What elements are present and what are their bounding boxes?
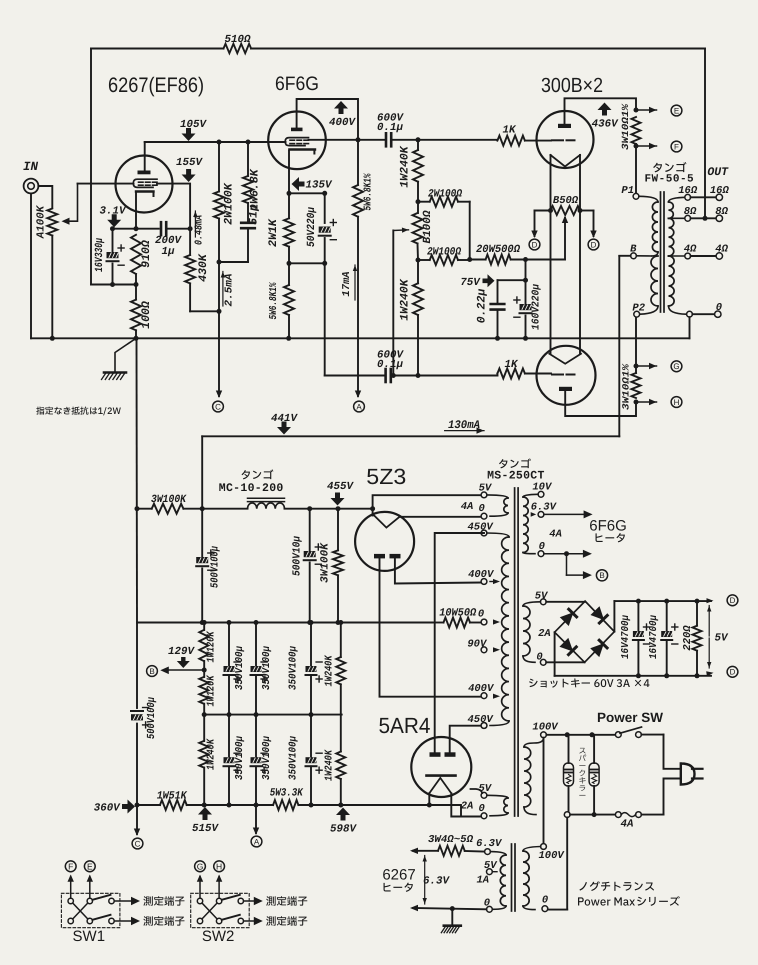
pot B50ohm — [551, 206, 581, 215]
svg-text:90V: 90V — [467, 638, 488, 650]
svg-text:3W4Ω~5Ω: 3W4Ω~5Ω — [428, 834, 474, 846]
bridge rectifier — [546, 601, 585, 603]
resistor 910ohm — [131, 235, 141, 274]
switch SW2 — [191, 893, 250, 927]
svg-text:3W100K: 3W100K — [320, 542, 332, 583]
terminal A bottom — [255, 805, 257, 833]
noguchi left winding — [485, 849, 491, 855]
svg-text:B: B — [599, 571, 604, 580]
resistor 1W240K col6 a — [340, 623, 342, 658]
wire B+ drop to filter — [201, 436, 203, 508]
svg-text:H: H — [216, 861, 222, 871]
terminal A top — [357, 338, 359, 396]
transformer T3 noguchi core — [511, 844, 513, 911]
svg-text:455V: 455V — [327, 481, 354, 493]
terminal D plus — [727, 595, 738, 606]
wire plate node — [145, 141, 286, 143]
svg-text:5V: 5V — [478, 783, 492, 795]
svg-text:1µ: 1µ — [162, 246, 175, 258]
wire 6F6G screen to plate node — [309, 139, 359, 141]
noguchi right winding — [523, 847, 541, 852]
wire 50V220u to lower coupling — [324, 263, 326, 375]
wire bridge minus — [554, 632, 556, 676]
MS left winding 5V top — [481, 492, 487, 498]
capacitor 160V220u — [525, 280, 527, 304]
capacitor 16V4700u b — [666, 601, 668, 631]
resistor 1W120K b — [199, 677, 208, 704]
wire B+ 441V rail — [202, 435, 619, 437]
wire 5AR4 to 5V tap — [471, 789, 483, 793]
capacitor 350V100u c5a — [310, 623, 312, 667]
spark killer 2 — [593, 735, 595, 763]
choke MC-10-200 — [242, 469, 274, 479]
svg-text:0: 0 — [478, 803, 484, 815]
svg-text:16Ω: 16Ω — [710, 185, 730, 197]
label 400V plate — [334, 101, 348, 114]
label 436V — [598, 103, 612, 116]
svg-text:5V: 5V — [479, 483, 493, 495]
tube V4 300B lower — [537, 346, 596, 405]
svg-text:A100K: A100K — [36, 204, 48, 239]
svg-text:3W10Ω1%: 3W10Ω1% — [621, 363, 632, 410]
svg-text:F: F — [674, 142, 679, 151]
svg-text:598V: 598V — [330, 824, 357, 836]
svg-text:3W10Ω1%: 3W10Ω1% — [620, 103, 631, 150]
wire 6F6G plate — [297, 99, 358, 140]
svg-text:5Z3: 5Z3 — [366, 464, 406, 489]
wire 6F6G cathode drop — [288, 151, 290, 194]
svg-text:1W240K: 1W240K — [399, 278, 412, 321]
wire coupling node to cap — [358, 139, 384, 141]
svg-text:450V: 450V — [467, 522, 494, 534]
wire join 51p/2W100K — [219, 261, 248, 263]
terminal B heater — [596, 570, 607, 581]
resistor 430K — [189, 229, 191, 255]
svg-text:0: 0 — [539, 541, 545, 553]
wire cathode node — [135, 192, 137, 229]
300B grid dashes — [552, 139, 563, 141]
resistor 1W240K col2 — [203, 715, 205, 741]
terminal E — [89, 877, 91, 899]
EF86 cathode — [136, 190, 154, 192]
MS 90V tap — [481, 647, 487, 653]
svg-text:400V: 400V — [329, 117, 356, 129]
wire 5AR4 left plate to 450V top — [435, 533, 484, 752]
wire 5V DC plus rail — [614, 600, 711, 602]
terminal C bottom — [136, 805, 138, 834]
svg-text:5AR4: 5AR4 — [379, 713, 431, 738]
wire 5AR4 cathode to bottom rail — [428, 793, 430, 805]
svg-text:16V330µ: 16V330µ — [94, 238, 106, 272]
svg-text:1W240K: 1W240K — [206, 738, 218, 770]
svg-text:A: A — [356, 402, 362, 411]
label spark killer — [579, 748, 585, 754]
svg-text:Power SW: Power SW — [597, 710, 663, 725]
capacitor 51p — [247, 203, 249, 221]
ground symbol main — [115, 338, 136, 372]
svg-text:4Ω: 4Ω — [715, 244, 728, 256]
svg-text:4A: 4A — [621, 819, 634, 831]
svg-text:C: C — [135, 839, 141, 848]
svg-text:400V: 400V — [468, 683, 495, 695]
svg-text:6F6G: 6F6G — [275, 73, 319, 95]
svg-text:4Ω: 4Ω — [684, 244, 697, 256]
transformer T2 MS-250CT label — [499, 458, 531, 468]
svg-text:16V4700µ: 16V4700µ — [648, 614, 660, 659]
hum pot B100ohm — [413, 213, 423, 244]
svg-text:436V: 436V — [592, 119, 619, 131]
SW2 measure wires — [244, 900, 254, 902]
wire 5Z3 left plate to 400V — [380, 558, 482, 696]
capacitor 16V4700u a — [637, 601, 639, 631]
capacitor 350V100u c3b — [228, 715, 230, 758]
svg-text:2W100Ω: 2W100Ω — [428, 189, 462, 201]
capacitor 500V10u — [309, 509, 311, 551]
resistor 3W100K second — [337, 509, 339, 551]
wire feedback top — [91, 48, 224, 50]
wire bridge AC bottom — [546, 661, 584, 663]
svg-text:1W240K: 1W240K — [324, 749, 336, 781]
resistor 1W51K — [160, 800, 187, 810]
resistor 5W3.3K — [273, 800, 298, 810]
terminal C top — [218, 338, 220, 396]
svg-text:129V: 129V — [168, 646, 195, 658]
svg-text:A: A — [254, 837, 260, 846]
resistor 1W240K upper — [417, 140, 419, 150]
svg-text:0.1µ: 0.1µ — [377, 122, 403, 134]
wire fuse to plug — [641, 814, 663, 816]
wire feedback right drop to 8ohm — [704, 49, 706, 219]
wire 5AR4 filament right to 0 — [451, 793, 481, 816]
wire switch to plug — [664, 735, 680, 769]
wire to caps — [525, 260, 527, 281]
wire heater 0 return — [413, 908, 486, 909]
svg-text:0: 0 — [542, 894, 548, 906]
wire OPT 0 to ground bus — [689, 317, 691, 338]
6F6G cathode — [289, 148, 315, 150]
wire MS 0 down to noguchi — [566, 818, 568, 910]
wire bottom rail — [137, 804, 160, 806]
wire 430K to chain — [190, 310, 219, 312]
svg-text:MC-10-200: MC-10-200 — [219, 482, 284, 495]
svg-text:17mA: 17mA — [341, 271, 353, 296]
capacitor 500V100u first — [201, 509, 203, 557]
svg-text:F: F — [68, 861, 73, 871]
potentiometer A100K — [47, 209, 57, 236]
resistor 2W1K — [288, 193, 290, 218]
wire pot bottom to bus — [51, 236, 53, 339]
svg-text:5W6.8K1%: 5W6.8K1% — [268, 282, 280, 320]
svg-text:100V: 100V — [539, 850, 566, 862]
resistor 3W10ohm1% lower — [634, 364, 639, 369]
svg-text:510Ω: 510Ω — [225, 34, 251, 46]
svg-text:430K: 430K — [197, 253, 210, 282]
svg-text:5V: 5V — [715, 633, 729, 645]
svg-text:135V: 135V — [306, 180, 333, 192]
svg-text:1A: 1A — [476, 875, 489, 887]
capacitor 350V100u c5b — [310, 715, 312, 758]
resistor 220ohm — [696, 601, 698, 626]
wire EF86 plate — [144, 142, 146, 171]
wire lower coupling — [325, 375, 384, 377]
svg-text:1W120K: 1W120K — [206, 630, 218, 662]
arrow 2.5mA — [222, 272, 224, 307]
pot wiper — [69, 184, 78, 222]
resistor 1W240K lower — [417, 260, 419, 283]
terminal E — [636, 109, 657, 111]
svg-text:D: D — [730, 596, 736, 605]
svg-text:D: D — [730, 668, 736, 677]
svg-text:8Ω: 8Ω — [715, 206, 728, 218]
svg-text:4A: 4A — [549, 529, 562, 541]
wire ground bus — [31, 337, 690, 339]
svg-text:2.5mA: 2.5mA — [224, 274, 236, 307]
fuse 4A — [615, 812, 621, 818]
terminal D right — [593, 211, 595, 237]
wire jack to pot — [38, 186, 52, 207]
terminal G — [199, 877, 201, 899]
svg-text:6267(EF86): 6267(EF86) — [108, 74, 204, 97]
svg-text:OUT: OUT — [707, 166, 729, 179]
wire grid EF86 — [78, 183, 134, 185]
heater wires 6F6G — [544, 513, 585, 515]
svg-text:2W100K: 2W100K — [223, 182, 236, 225]
capacitor 350V100u c3a — [228, 623, 230, 667]
capacitor 500V100u second — [136, 623, 138, 709]
svg-text:5V: 5V — [535, 591, 549, 603]
svg-text:400V: 400V — [468, 569, 495, 581]
wire 5V DC minus rail — [555, 675, 711, 677]
MS 400V tap upper — [481, 579, 487, 585]
wire 0 line to fuse — [564, 812, 570, 818]
svg-text:8Ω: 8Ω — [684, 206, 697, 218]
diode D2 — [591, 607, 607, 623]
svg-text:2W100Ω: 2W100Ω — [427, 247, 461, 259]
6F6G grid box — [285, 138, 308, 146]
wire rail to 0 tap — [429, 805, 481, 817]
note resistors 1/2W — [36, 407, 120, 416]
svg-text:P1: P1 — [621, 185, 634, 197]
OPT core — [660, 192, 662, 312]
capacitor 350V100u c4a — [255, 623, 257, 667]
svg-text:2W1K: 2W1K — [267, 218, 280, 247]
wire main ground vertical — [136, 338, 139, 622]
diode D1 — [561, 609, 577, 625]
svg-text:6267: 6267 — [382, 867, 415, 884]
svg-text:500V100µ: 500V100µ — [146, 697, 158, 739]
svg-text:51p: 51p — [248, 204, 261, 225]
terminal B psu — [168, 669, 204, 671]
svg-text:1K: 1K — [505, 359, 519, 371]
capacitor 16V330u — [112, 229, 114, 252]
resistor 1W6.8K — [247, 142, 249, 176]
resistor 5W6.8K1% cathode — [288, 263, 290, 285]
svg-text:0.22µ: 0.22µ — [476, 289, 489, 324]
label 515V — [198, 807, 212, 820]
terminal D left — [534, 211, 536, 237]
terminal G — [636, 365, 657, 367]
capacitor 200V 1u — [160, 222, 163, 235]
svg-text:0: 0 — [716, 302, 722, 314]
svg-text:515V: 515V — [192, 823, 219, 835]
svg-text:100Ω: 100Ω — [140, 301, 153, 329]
svg-text:D: D — [591, 240, 597, 249]
svg-text:500V10µ: 500V10µ — [292, 536, 304, 576]
svg-text:3W100K: 3W100K — [151, 494, 187, 506]
svg-text:75V: 75V — [460, 277, 481, 289]
svg-text:350V100µ: 350V100µ — [234, 735, 246, 780]
wire feedback left drop — [90, 49, 92, 285]
svg-text:1W120K: 1W120K — [206, 674, 218, 706]
B100 wiper — [393, 229, 408, 232]
MS 5V/2A winding for 5AR4 — [481, 792, 487, 798]
svg-text:0: 0 — [484, 897, 490, 909]
svg-text:B50Ω: B50Ω — [553, 195, 579, 207]
wire 5AR4 right plate to 450V bottom — [450, 726, 481, 753]
diode D3 — [560, 639, 576, 655]
svg-text:G: G — [197, 861, 204, 871]
diode D4 — [591, 640, 607, 656]
svg-text:155V: 155V — [176, 157, 203, 169]
wire filter bus — [137, 622, 432, 624]
svg-text:0: 0 — [536, 652, 542, 664]
resistor 100ohm — [131, 300, 141, 331]
5Z3 plates — [374, 554, 385, 559]
MS core — [514, 488, 516, 816]
label 135V — [292, 177, 305, 191]
resistor 2W100K — [218, 142, 220, 192]
svg-text:6.3V: 6.3V — [476, 838, 503, 850]
svg-text:1W240K: 1W240K — [399, 145, 412, 188]
svg-text:500V100µ: 500V100µ — [210, 546, 222, 588]
svg-text:P2: P2 — [632, 303, 645, 315]
OUT terminals — [716, 194, 722, 200]
svg-text:300B×2: 300B×2 — [541, 74, 603, 97]
svg-text:350V100µ: 350V100µ — [261, 735, 273, 780]
svg-text:IN: IN — [23, 160, 39, 174]
resistor 2W100ohm lower — [417, 244, 420, 261]
svg-text:6F6G: 6F6G — [589, 518, 627, 535]
svg-text:5W6.8K1%: 5W6.8K1% — [363, 173, 375, 211]
OPT B tap — [631, 253, 637, 259]
svg-text:16V4700µ: 16V4700µ — [620, 614, 632, 659]
ground heater — [451, 909, 453, 926]
svg-text:1W240K: 1W240K — [324, 654, 336, 686]
resistor 1W240K col6 b — [340, 715, 342, 752]
svg-text:2A: 2A — [538, 628, 551, 640]
wire cathode bottom node — [91, 284, 136, 286]
svg-text:50V220µ: 50V220µ — [306, 207, 318, 247]
svg-text:100V: 100V — [532, 722, 559, 734]
svg-text:G: G — [673, 362, 679, 371]
transformer T1 FW-50-5 label — [653, 162, 686, 172]
svg-text:B: B — [149, 667, 154, 676]
svg-text:20W500Ω: 20W500Ω — [476, 244, 520, 256]
wire col2 from bus — [203, 623, 205, 631]
label 5V measure — [708, 606, 710, 637]
svg-text:16Ω: 16Ω — [678, 185, 698, 197]
MS 0 tap 10W50 — [481, 619, 487, 625]
wire mid filter — [204, 714, 342, 716]
MS 10V/6.3V winding 6F6G heater — [538, 491, 544, 497]
svg-text:10V: 10V — [532, 482, 553, 494]
terminal H — [218, 877, 220, 899]
wire 5Z3 right plate to 400V — [395, 558, 481, 583]
svg-text:FW-50-5: FW-50-5 — [644, 174, 694, 186]
300B filament V — [551, 155, 581, 167]
svg-text:6.3V: 6.3V — [531, 502, 558, 514]
wire B tap down — [618, 256, 620, 436]
svg-text:105V: 105V — [180, 119, 207, 131]
wire 2W100 bracket — [469, 202, 471, 260]
svg-text:B100Ω: B100Ω — [422, 210, 434, 243]
label noguchi — [579, 881, 654, 891]
label 598V — [336, 808, 350, 821]
filament rails — [550, 155, 552, 354]
label 6.3V measure — [424, 856, 426, 879]
resistor 2W100ohm upper — [418, 201, 430, 203]
AC plug — [681, 764, 695, 785]
resistor 1K lower — [497, 369, 525, 379]
wire bridge plus — [613, 601, 615, 632]
svg-text:0.48mA: 0.48mA — [194, 215, 206, 245]
noguchi 100V tap link — [543, 738, 545, 844]
5Z3 filament V — [374, 515, 400, 528]
svg-text:350V100µ: 350V100µ — [261, 645, 273, 690]
svg-text:5W3.3K: 5W3.3K — [270, 788, 304, 800]
wire EF86 screen — [157, 184, 190, 229]
resistor 5W6.8K1% load — [357, 140, 359, 185]
resistor 20W500ohm — [486, 255, 511, 265]
svg-text:SW2: SW2 — [202, 928, 235, 945]
OPT taps out — [685, 194, 691, 200]
svg-text:160V220µ: 160V220µ — [531, 283, 543, 330]
svg-text:H: H — [674, 398, 680, 407]
svg-text:910Ω: 910Ω — [140, 240, 153, 268]
wire 455V node to 5V tap — [373, 495, 481, 509]
terminal F — [636, 145, 657, 147]
resistor 3W10ohm1% upper — [634, 108, 639, 113]
SW1 measure wires — [114, 900, 130, 902]
capacitor 600V 0.1u upper — [385, 133, 388, 146]
svg-text:E: E — [674, 106, 679, 115]
terminal D minus — [727, 666, 738, 677]
resistor 510ohm feedback — [224, 44, 252, 53]
MS 5V/2A winding bridge — [540, 599, 546, 605]
arrow 0.48mA — [194, 211, 196, 237]
resistor 1K upper — [497, 136, 525, 146]
OPT primary coil — [633, 193, 639, 199]
svg-text:350V100µ: 350V100µ — [234, 645, 246, 690]
wire 300B2 plate — [565, 391, 636, 416]
arrow 17mA — [354, 265, 356, 300]
svg-text:360V: 360V — [94, 803, 121, 815]
svg-text:350V100µ: 350V100µ — [288, 645, 300, 690]
capacitor 600V 0.1u lower — [384, 369, 387, 382]
MS primary 100V winding — [541, 732, 547, 738]
svg-text:B: B — [630, 244, 637, 256]
svg-text:0: 0 — [478, 503, 484, 515]
svg-text:1W51K: 1W51K — [157, 791, 188, 803]
wire 100V to switch — [546, 734, 616, 736]
svg-text:D: D — [532, 240, 538, 249]
resistor 1W120K a — [199, 630, 208, 661]
svg-text:4A: 4A — [461, 501, 474, 513]
wire jack ground — [30, 193, 32, 338]
MS 400V tap lower — [481, 693, 487, 699]
capacitor 50V220u — [324, 193, 326, 223]
wire cathode mid node — [289, 262, 325, 264]
